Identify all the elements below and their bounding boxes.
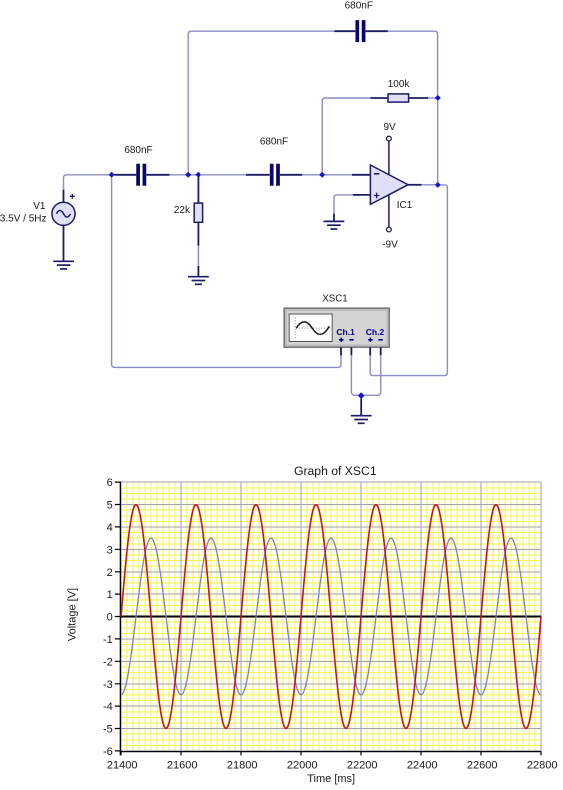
svg-text:-4: -4 xyxy=(103,701,113,713)
svg-text:22200: 22200 xyxy=(347,760,378,772)
svg-text:22600: 22600 xyxy=(467,760,498,772)
graph fine yellow grid xyxy=(121,482,541,751)
ground GND4 (scope) xyxy=(351,416,372,424)
svg-text:3: 3 xyxy=(107,544,113,556)
trace Ch.2 output (red, 5V) xyxy=(121,505,541,729)
wire: op-amp output to node E xyxy=(408,184,435,186)
svg-text:1: 1 xyxy=(107,589,113,601)
svg-text:21600: 21600 xyxy=(167,760,198,772)
svg-text:22k: 22k xyxy=(174,205,191,216)
op-amp IC1 xyxy=(370,165,408,204)
scope channel labels Ch.1 Ch.2 xyxy=(336,327,384,337)
wire: C1 to node B xyxy=(170,174,197,176)
wire W12: Ch.2- down to scope ground node xyxy=(364,355,381,395)
node F junction (scope ground) xyxy=(358,392,365,399)
node C junction (inverting input node) xyxy=(319,172,325,178)
wire W1: V1 top lead and wire to node A xyxy=(64,175,110,203)
scope terminal polarity marks xyxy=(339,338,383,342)
voltage source V1 xyxy=(52,194,75,261)
svg-text:IC1: IC1 xyxy=(397,200,413,211)
wire W2: node A down and across to scope Ch.1+ xyxy=(112,178,341,368)
svg-text:Graph of XSC1: Graph of XSC1 xyxy=(294,464,377,478)
svg-text:22000: 22000 xyxy=(287,760,318,772)
wire W11: Ch.1- down to scope ground node xyxy=(351,355,358,395)
wire W3b: C3 to node D (feedback right side) xyxy=(388,31,438,95)
graph major gray grid xyxy=(121,482,541,751)
svg-text:V1: V1 xyxy=(33,201,46,212)
svg-text:3.5V / 5Hz: 3.5V / 5Hz xyxy=(0,214,47,225)
svg-text:9V: 9V xyxy=(383,122,396,133)
capacitor C3 680nF (feedback) xyxy=(334,20,388,42)
node E junction (output) xyxy=(435,182,441,188)
svg-text:Ch.1: Ch.1 xyxy=(336,327,355,337)
oscilloscope XSC1 box xyxy=(284,308,389,347)
svg-text:-5: -5 xyxy=(103,724,113,736)
graph y-axis labels xyxy=(103,477,113,758)
wire: C2 to node C xyxy=(302,174,320,176)
svg-text:-9V: -9V xyxy=(382,240,398,251)
svg-text:22400: 22400 xyxy=(407,760,438,772)
svg-text:680nF: 680nF xyxy=(260,137,288,148)
wire W4: 22k to ground xyxy=(197,246,199,277)
ground GND3 at non-inverting input xyxy=(324,221,345,229)
svg-text:Time [ms]: Time [ms] xyxy=(307,773,355,785)
wire W6: node C to inverting input xyxy=(325,174,371,176)
svg-text:2: 2 xyxy=(107,567,113,579)
svg-text:-2: -2 xyxy=(103,656,113,668)
wire W9: non-inverting input to ground xyxy=(334,195,370,221)
wire W7: node C up to 100k xyxy=(322,98,370,172)
svg-text:680nF: 680nF xyxy=(124,145,152,156)
supply terminal -9V xyxy=(387,195,392,232)
scope terminal stubs xyxy=(341,347,381,355)
wire: node B to C2 xyxy=(200,174,246,176)
node B2 junction (to 22k) xyxy=(195,172,201,178)
node B1 junction (to feedback cap) xyxy=(185,172,191,178)
svg-text:Voltage [V]: Voltage [V] xyxy=(67,588,79,641)
svg-text:XSC1: XSC1 xyxy=(322,294,347,305)
svg-text:100k: 100k xyxy=(388,79,411,90)
resistor R2 22k xyxy=(194,177,202,246)
node D junction (feedback / 100k) xyxy=(435,95,441,101)
wire: node F to ground xyxy=(360,399,362,416)
trace Ch.1 input (blue, 3.5V) xyxy=(121,538,541,695)
svg-text:6: 6 xyxy=(107,477,113,489)
graph x-axis labels xyxy=(107,760,558,772)
svg-text:-3: -3 xyxy=(103,679,113,691)
capacitor C2 680nF xyxy=(246,164,302,186)
resistor R1 100k xyxy=(370,94,428,102)
oscilloscope screen icon with sine xyxy=(289,314,332,342)
ground GND1 below V1 xyxy=(53,261,74,269)
svg-text:21800: 21800 xyxy=(227,760,258,772)
wire W3a: node B up to feedback capacitor C3 xyxy=(188,31,334,172)
svg-text:-1: -1 xyxy=(103,634,113,646)
svg-text:-6: -6 xyxy=(103,746,113,758)
graph axes and tick marks xyxy=(115,482,542,756)
svg-text:22800: 22800 xyxy=(527,760,558,772)
svg-text:21400: 21400 xyxy=(107,760,138,772)
node A junction xyxy=(109,172,115,178)
graph zero axis line xyxy=(121,616,541,618)
supply terminal 9V xyxy=(387,136,392,174)
svg-text:5: 5 xyxy=(107,500,113,512)
svg-text:Ch.2: Ch.2 xyxy=(366,327,385,337)
wire W8: node D down to output node E xyxy=(437,101,439,183)
svg-text:680nF: 680nF xyxy=(345,1,373,12)
svg-text:0: 0 xyxy=(107,612,113,624)
wire: 100k to node D xyxy=(428,97,435,99)
svg-text:4: 4 xyxy=(107,522,113,534)
wire W10: output node to scope Ch.2+ xyxy=(370,185,447,376)
ground GND2 below 22k xyxy=(188,277,209,285)
capacitor C1 680nF xyxy=(114,164,169,186)
